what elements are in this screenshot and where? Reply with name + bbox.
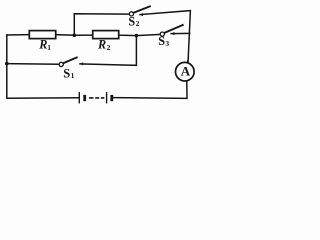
svg-text:S: S	[158, 34, 165, 48]
wire left vertical	[6, 35, 8, 98]
wire junction A to R2	[74, 34, 93, 36]
wire bottom left from battery to left corner	[7, 97, 79, 100]
wire S2 fixed contact to top right corner and right vertical down	[140, 11, 190, 63]
wire main row left to R1	[7, 34, 30, 36]
switch S3	[160, 25, 183, 37]
svg-text:1: 1	[47, 43, 51, 52]
svg-text:2: 2	[136, 19, 140, 28]
battery cell 1 long plate	[78, 92, 80, 103]
wire riser junction A up to top branch	[74, 14, 129, 36]
svg-text:2: 2	[107, 43, 111, 52]
switch S2	[129, 6, 151, 16]
svg-text:A: A	[181, 64, 191, 79]
battery B1	[79, 92, 112, 103]
wire R1 to junction A	[56, 34, 75, 37]
switch S1	[59, 57, 83, 66]
svg-text:1: 1	[71, 71, 75, 80]
battery dashes	[89, 97, 94, 99]
ammeter U1	[176, 60, 195, 81]
svg-text:S: S	[63, 66, 70, 80]
battery cell 2 short thick plate	[110, 95, 113, 101]
node B junction dot	[135, 34, 139, 38]
resistor R2	[93, 31, 119, 39]
svg-text:R: R	[38, 38, 47, 52]
wire R2 to junction B	[119, 34, 137, 36]
resistor R1	[29, 31, 55, 39]
svg-text:R: R	[97, 38, 106, 52]
battery cell 2 long plate	[106, 92, 108, 103]
wire S1 row from left vertical to switch	[7, 63, 59, 66]
wire S1 fixed contact to riser and up to junction B	[80, 36, 136, 66]
wire S3 fixed contact stub	[171, 32, 190, 34]
svg-text:3: 3	[165, 39, 169, 48]
node A junction dot	[73, 33, 77, 37]
node left T junction dot	[5, 62, 9, 66]
svg-text:S: S	[128, 14, 135, 28]
wire junction B to S3	[136, 34, 160, 35]
wire ammeter bottom to bottom right corner	[113, 81, 187, 98]
battery cell 1 short thick plate	[83, 95, 86, 101]
